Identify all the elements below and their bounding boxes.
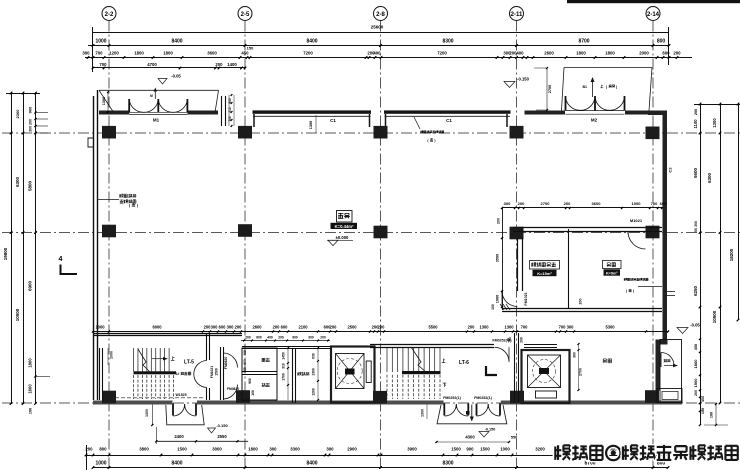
svg-text:2700: 2700 xyxy=(579,368,583,376)
svg-text:2-5: 2-5 xyxy=(241,12,250,18)
door M1 arcs xyxy=(129,100,144,113)
svg-text:400: 400 xyxy=(243,350,247,356)
entrance 2 center posts xyxy=(455,404,457,408)
right dim chain a xyxy=(700,104,702,425)
shaft labels xyxy=(262,358,270,362)
svg-text:1000: 1000 xyxy=(632,201,642,206)
level mark -0.150 at M2 xyxy=(504,82,515,88)
svg-text:1500: 1500 xyxy=(480,447,490,452)
column at (516.5,132.2) xyxy=(510,126,524,139)
wall room south xyxy=(502,308,662,310)
svg-text:1000: 1000 xyxy=(500,447,510,452)
entrance 2 dims xyxy=(437,441,510,443)
bottom dim line 1 xyxy=(86,455,668,457)
wall top segment M2 west pier xyxy=(532,111,565,115)
grid line 2-B horizontal xyxy=(2,132,740,134)
stair LT-5 break line xyxy=(138,349,152,374)
svg-text:3200: 3200 xyxy=(535,447,545,452)
svg-text:2000: 2000 xyxy=(639,51,649,56)
svg-text:1300: 1300 xyxy=(312,368,316,376)
svg-text:200: 200 xyxy=(330,325,338,330)
M2 up arrow xyxy=(592,79,594,97)
wall below grid C east xyxy=(513,227,662,229)
svg-text:2700: 2700 xyxy=(548,85,552,93)
door M1 arrow xyxy=(154,89,156,99)
door FM1021 pair xyxy=(194,361,207,388)
svg-text:200: 200 xyxy=(564,201,571,206)
svg-text:3600: 3600 xyxy=(207,51,217,56)
left dim chain mid xyxy=(23,93,25,404)
threshold hatch xyxy=(500,304,504,310)
svg-text:900: 900 xyxy=(28,106,33,113)
svg-text:1800: 1800 xyxy=(134,51,144,56)
svg-text:): ) xyxy=(434,139,435,143)
svg-text:B1: B1 xyxy=(583,85,588,89)
svg-text:450: 450 xyxy=(701,396,705,402)
svg-text:1500: 1500 xyxy=(693,378,698,388)
ramp stoop xyxy=(657,389,682,403)
wall top segment b xyxy=(188,111,219,115)
svg-text:5300: 5300 xyxy=(605,325,615,330)
svg-text:8300: 8300 xyxy=(442,461,453,467)
entrance 2 canopy xyxy=(437,405,507,424)
shaft rooms outline xyxy=(242,348,277,400)
svg-text:700: 700 xyxy=(651,201,658,206)
storage dim chain xyxy=(578,344,580,390)
svg-text:2600: 2600 xyxy=(252,325,262,330)
entrance 2 door arcs xyxy=(445,405,457,417)
svg-text:3500: 3500 xyxy=(496,254,500,262)
column at (109,132.2) xyxy=(102,126,116,139)
svg-text:700: 700 xyxy=(508,337,512,343)
column at (109,231) xyxy=(102,225,116,238)
wall bottom segment b xyxy=(197,401,444,405)
leader note 1 text xyxy=(120,194,137,198)
svg-text:10500: 10500 xyxy=(712,310,717,323)
stair LT-6 labels xyxy=(442,359,446,363)
svg-text:6000: 6000 xyxy=(152,325,162,330)
svg-text:300: 300 xyxy=(573,352,577,358)
svg-text:200: 200 xyxy=(29,119,33,125)
wall bottom segment c xyxy=(501,401,682,405)
leader note 2 line xyxy=(414,117,420,129)
svg-text:FM0252(1): FM0252(1) xyxy=(474,396,492,400)
svg-text:1800: 1800 xyxy=(163,51,173,56)
vestibule right wall xyxy=(221,96,223,126)
svg-text:1300: 1300 xyxy=(479,325,489,330)
svg-text:1000: 1000 xyxy=(95,39,106,45)
entrance 2 down arrow xyxy=(471,405,473,420)
svg-text:8400: 8400 xyxy=(306,39,317,45)
grid line 2-5 xyxy=(244,21,246,470)
svg-text:700: 700 xyxy=(99,62,107,67)
top wall of rooms xyxy=(242,346,330,348)
wall right lower jog xyxy=(656,340,668,345)
svg-text:C2: C2 xyxy=(668,167,673,173)
svg-text:200: 200 xyxy=(278,336,284,340)
stair LT-6 landing bar xyxy=(402,371,441,374)
grid bubble 2-5 xyxy=(238,7,252,21)
svg-text:600: 600 xyxy=(662,51,670,56)
door M1 sill lines xyxy=(129,111,187,113)
column at (243,396.5) xyxy=(236,390,250,403)
hydrant label xyxy=(298,372,310,375)
wall stair zone top xyxy=(93,333,242,335)
svg-text:C1: C1 xyxy=(330,118,336,123)
svg-text:2-14: 2-14 xyxy=(647,12,660,18)
top dim row2 ticks xyxy=(87,56,90,59)
svg-text:300: 300 xyxy=(243,367,247,373)
svg-text:1300: 1300 xyxy=(421,409,425,417)
grid line 2-2 xyxy=(108,21,110,470)
entrance 2 dim 1300 xyxy=(426,405,428,420)
svg-text:3300: 3300 xyxy=(290,447,300,452)
leader note 1 line xyxy=(97,199,119,201)
svg-text:700: 700 xyxy=(95,51,103,56)
svg-text:18200: 18200 xyxy=(729,248,734,261)
door M2 sill lines xyxy=(566,110,625,112)
elevator 2 pit xyxy=(536,391,557,398)
svg-text:1800: 1800 xyxy=(248,447,258,452)
stair LT-6 break line xyxy=(411,347,428,374)
svg-text:200: 200 xyxy=(694,390,698,396)
svg-text:6300: 6300 xyxy=(15,176,20,187)
svg-text:400: 400 xyxy=(267,336,273,340)
svg-text:K=9m²: K=9m² xyxy=(606,271,618,275)
svg-text:600: 600 xyxy=(219,325,227,330)
svg-text:6900: 6900 xyxy=(28,280,33,291)
svg-text:2300: 2300 xyxy=(15,109,20,119)
svg-text:LT-5: LT-5 xyxy=(184,360,194,366)
column at (652.5,132.8) xyxy=(646,127,660,140)
svg-text:800: 800 xyxy=(99,447,107,452)
svg-text:1300: 1300 xyxy=(309,121,313,129)
svg-text:1500: 1500 xyxy=(177,447,187,452)
svg-text:3800: 3800 xyxy=(139,447,149,452)
svg-text:7200: 7200 xyxy=(303,51,313,56)
svg-text:400: 400 xyxy=(516,51,524,56)
top border bar xyxy=(567,0,740,3)
svg-text:200: 200 xyxy=(694,109,698,115)
grid bubble 2-2 xyxy=(102,7,116,21)
svg-text:300: 300 xyxy=(504,201,511,206)
door M1021 at top right xyxy=(628,232,646,250)
door FM0820 lower xyxy=(223,385,237,400)
svg-text:700: 700 xyxy=(521,325,529,330)
svg-text:8700: 8700 xyxy=(578,39,589,45)
svg-text:-0.05: -0.05 xyxy=(690,323,700,328)
bottom dim row1 ticks xyxy=(85,454,88,457)
column at (245,132.2) xyxy=(238,126,252,139)
svg-text:50: 50 xyxy=(694,228,698,232)
svg-text:2700: 2700 xyxy=(541,201,551,206)
svg-text:25600: 25600 xyxy=(371,25,384,30)
svg-text:2-8: 2-8 xyxy=(376,12,385,18)
svg-text:300: 300 xyxy=(82,51,90,56)
level mark -0.05 right xyxy=(677,328,688,334)
svg-text:1#: 1# xyxy=(176,372,180,376)
grid bubble 2-8 xyxy=(374,7,388,21)
svg-text:600: 600 xyxy=(660,201,667,206)
svg-text:100: 100 xyxy=(491,304,495,310)
svg-text:1800: 1800 xyxy=(605,51,615,56)
partition x568 xyxy=(568,229,570,309)
leader note 2 text xyxy=(421,131,444,134)
svg-text:450: 450 xyxy=(241,51,249,56)
svg-text:M: M xyxy=(150,94,153,98)
svg-text:M1021: M1021 xyxy=(630,218,643,223)
svg-text:300: 300 xyxy=(326,447,334,452)
svg-text:3900: 3900 xyxy=(407,447,417,452)
dim chain x318 xyxy=(317,348,319,400)
door M1 jambs xyxy=(128,99,130,113)
svg-text:LT-6: LT-6 xyxy=(459,360,469,366)
svg-text:10500: 10500 xyxy=(15,308,20,321)
column at (652,396.5) xyxy=(645,390,659,403)
svg-text:): ) xyxy=(633,289,634,293)
svg-text:4700: 4700 xyxy=(147,62,157,67)
entrance 1 dim 1300 xyxy=(151,405,153,426)
svg-text:450: 450 xyxy=(694,344,698,350)
svg-text:600: 600 xyxy=(243,359,247,365)
column at (380,397.2) xyxy=(373,391,387,404)
svg-text:K=15m²: K=15m² xyxy=(537,271,552,276)
wall top right corner xyxy=(648,111,667,116)
svg-text:300: 300 xyxy=(567,325,575,330)
svg-text:300: 300 xyxy=(269,447,277,452)
svg-text:19800: 19800 xyxy=(3,247,8,260)
wall right xyxy=(663,112,668,340)
interior dim line xyxy=(93,331,668,333)
svg-text:150: 150 xyxy=(247,46,254,51)
grid bubble 2-11 xyxy=(510,7,524,21)
entrance 2 level mark xyxy=(479,432,489,438)
stair west wall xyxy=(99,348,101,400)
left dim tick 1800/1600 xyxy=(36,376,51,378)
stair LT-5 up arrow xyxy=(152,358,166,360)
svg-text:FM1021: FM1021 xyxy=(524,292,528,305)
svg-text:100: 100 xyxy=(251,390,255,396)
svg-text:8400: 8400 xyxy=(171,461,182,467)
svg-text:8300: 8300 xyxy=(442,39,453,45)
room dim chain x288 xyxy=(287,348,289,400)
svg-text:2900: 2900 xyxy=(347,447,357,452)
svg-text:900: 900 xyxy=(466,447,474,452)
vestibule side dims xyxy=(228,95,230,126)
elevator 1 shaft xyxy=(331,347,375,403)
room label fire control box xyxy=(530,261,560,270)
wall left outer xyxy=(93,96,95,400)
svg-text:900: 900 xyxy=(292,336,298,340)
svg-text:200: 200 xyxy=(520,337,524,343)
top dim line 3 xyxy=(85,57,692,59)
svg-text:2-11: 2-11 xyxy=(511,12,523,18)
svg-text:1500: 1500 xyxy=(215,368,219,376)
svg-text:-0.05: -0.05 xyxy=(171,74,181,79)
top dim line 1 xyxy=(93,32,669,34)
svg-text:FM0820: FM0820 xyxy=(224,357,228,370)
stair LT-6 enclosure top xyxy=(370,344,494,346)
entrance 2 door jambs xyxy=(443,404,445,416)
svg-text:M2: M2 xyxy=(591,118,598,123)
svg-text:FM0252(1): FM0252(1) xyxy=(443,396,461,400)
svg-text:100: 100 xyxy=(29,408,33,414)
svg-text:200: 200 xyxy=(320,336,326,340)
svg-text:630: 630 xyxy=(312,353,316,359)
svg-text:K=0.44m²: K=0.44m² xyxy=(335,224,354,229)
entrance 1 canopy xyxy=(166,405,204,425)
svg-text:3000: 3000 xyxy=(212,447,222,452)
stair LT-5 treads lower dashed xyxy=(133,375,135,399)
svg-text:C1: C1 xyxy=(446,118,452,123)
svg-text:200: 200 xyxy=(245,336,251,340)
wall left jog xyxy=(88,138,94,147)
grid line 2-8 xyxy=(380,21,382,470)
canopy M2 dim 2700 xyxy=(546,68,548,110)
svg-text:1200: 1200 xyxy=(312,388,316,396)
svg-text:1860: 1860 xyxy=(693,359,698,369)
grid line 2-11 xyxy=(516,21,518,470)
column at (516.5,233) xyxy=(510,227,524,240)
svg-text:W1525: W1525 xyxy=(175,393,186,397)
right dim chain b xyxy=(720,104,722,403)
svg-text:300: 300 xyxy=(694,221,698,227)
svg-text:200: 200 xyxy=(673,51,681,56)
stair LT-5 treads upper xyxy=(133,348,135,372)
dim 1300 window xyxy=(315,115,317,133)
wall x220 xyxy=(220,347,222,400)
entrance 1 dims xyxy=(156,440,248,442)
level mark -0.05 at M1 xyxy=(158,79,167,85)
svg-text:6300: 6300 xyxy=(707,172,712,183)
svg-text:200: 200 xyxy=(497,218,501,224)
svg-text:FM1021: FM1021 xyxy=(210,366,214,379)
svg-text:5800: 5800 xyxy=(28,180,33,191)
svg-text:1300: 1300 xyxy=(145,409,149,417)
svg-text:7200: 7200 xyxy=(437,51,447,56)
svg-text:±0.000: ±0.000 xyxy=(336,235,349,240)
svg-text:300: 300 xyxy=(211,325,219,330)
svg-text:1000: 1000 xyxy=(95,461,106,467)
svg-text:-0.150: -0.150 xyxy=(517,77,530,82)
svg-text:1450: 1450 xyxy=(282,352,286,360)
dim row y208 xyxy=(503,207,663,209)
svg-text:2600: 2600 xyxy=(544,51,554,56)
grid bubble 2-14 xyxy=(646,7,660,21)
svg-text:200: 200 xyxy=(579,299,583,305)
svg-text:FM0820: FM0820 xyxy=(227,387,239,391)
wall room west x517 xyxy=(517,238,519,291)
left dim small tick lines xyxy=(36,112,49,114)
left dim chain inner xyxy=(35,93,37,404)
left dim chain outer xyxy=(11,93,13,404)
top dim row3 ticks xyxy=(92,67,95,70)
canopy M2 outline xyxy=(562,68,653,111)
bottom dim row2 ticks xyxy=(92,466,95,469)
svg-text:5500: 5500 xyxy=(428,325,438,330)
svg-text:2400: 2400 xyxy=(174,434,184,439)
svg-text:800: 800 xyxy=(657,39,666,45)
area label value xyxy=(331,223,358,229)
svg-text:2-2: 2-2 xyxy=(105,12,114,18)
corridor wall x514 xyxy=(514,333,516,402)
svg-text:200: 200 xyxy=(518,201,525,206)
svg-text:200: 200 xyxy=(273,325,281,330)
svg-text:2100: 2100 xyxy=(298,325,308,330)
svg-text:300: 300 xyxy=(29,126,33,132)
room partition x293 xyxy=(292,348,294,403)
stair west opening dim xyxy=(107,348,109,365)
svg-text:-0.150: -0.150 xyxy=(485,428,496,432)
door FM0820 upper xyxy=(223,353,237,368)
svg-text:200: 200 xyxy=(215,62,223,67)
stair LT-6 treads xyxy=(386,347,388,372)
right dim chain c xyxy=(738,104,740,320)
elevator 2 cab xyxy=(528,355,561,388)
entrance 1 door jambs xyxy=(172,404,174,416)
column at (380.5,132.2) xyxy=(374,126,388,139)
top dim line 2 xyxy=(88,45,669,47)
watermark sohu xyxy=(555,445,571,460)
stair window dashed xyxy=(115,397,205,399)
svg-text:M1: M1 xyxy=(153,118,160,123)
svg-text:100: 100 xyxy=(701,408,705,414)
stair lobby wall x207 xyxy=(206,333,208,360)
entrance 1 door arcs xyxy=(173,405,184,417)
door M2 jambs xyxy=(565,96,567,111)
level mark 0.00 xyxy=(328,240,338,245)
canopy M1 outline xyxy=(99,90,219,112)
svg-text:6250: 6250 xyxy=(693,285,698,296)
wall top stub 2-11 xyxy=(525,111,533,115)
svg-text:4: 4 xyxy=(59,256,63,263)
svg-text:200: 200 xyxy=(468,325,476,330)
wall bottom segment a xyxy=(93,401,173,405)
svg-text:310: 310 xyxy=(282,363,286,369)
column at (380.5,232) xyxy=(374,226,388,239)
bottom dim line 2 xyxy=(93,467,669,469)
top dim line 4 xyxy=(93,67,245,69)
stair LT-6 corner mark xyxy=(486,366,497,375)
door FM0252 upper xyxy=(495,347,510,362)
ramp room outline xyxy=(660,340,682,403)
ramp arrow xyxy=(664,365,676,367)
svg-text:300: 300 xyxy=(308,336,314,340)
door M2 arcs xyxy=(566,97,581,111)
svg-text:1100: 1100 xyxy=(693,119,698,129)
service room top dims xyxy=(241,340,330,342)
leader note 3 text xyxy=(624,278,648,281)
right dim top tick line xyxy=(694,104,740,106)
svg-text:1700: 1700 xyxy=(282,373,286,381)
svg-text:400: 400 xyxy=(373,51,381,56)
svg-text:1500: 1500 xyxy=(451,447,461,452)
elevator 1 counterweight xyxy=(366,361,371,383)
canopy M1 dim 1300 xyxy=(107,92,109,112)
wall top segment M2 east pier xyxy=(625,111,648,115)
svg-text:900: 900 xyxy=(248,378,252,384)
svg-text:1000: 1000 xyxy=(110,351,114,359)
top dim row1 ticks xyxy=(92,44,95,47)
storage room label xyxy=(603,359,612,363)
svg-text:1200: 1200 xyxy=(109,51,119,56)
window C1 west band xyxy=(253,110,372,113)
svg-text:1300: 1300 xyxy=(102,97,106,105)
column at (109,397) xyxy=(102,391,116,404)
column at (652.5,232) xyxy=(646,226,660,239)
svg-text:300: 300 xyxy=(227,325,235,330)
left dim top tick line xyxy=(6,93,40,95)
